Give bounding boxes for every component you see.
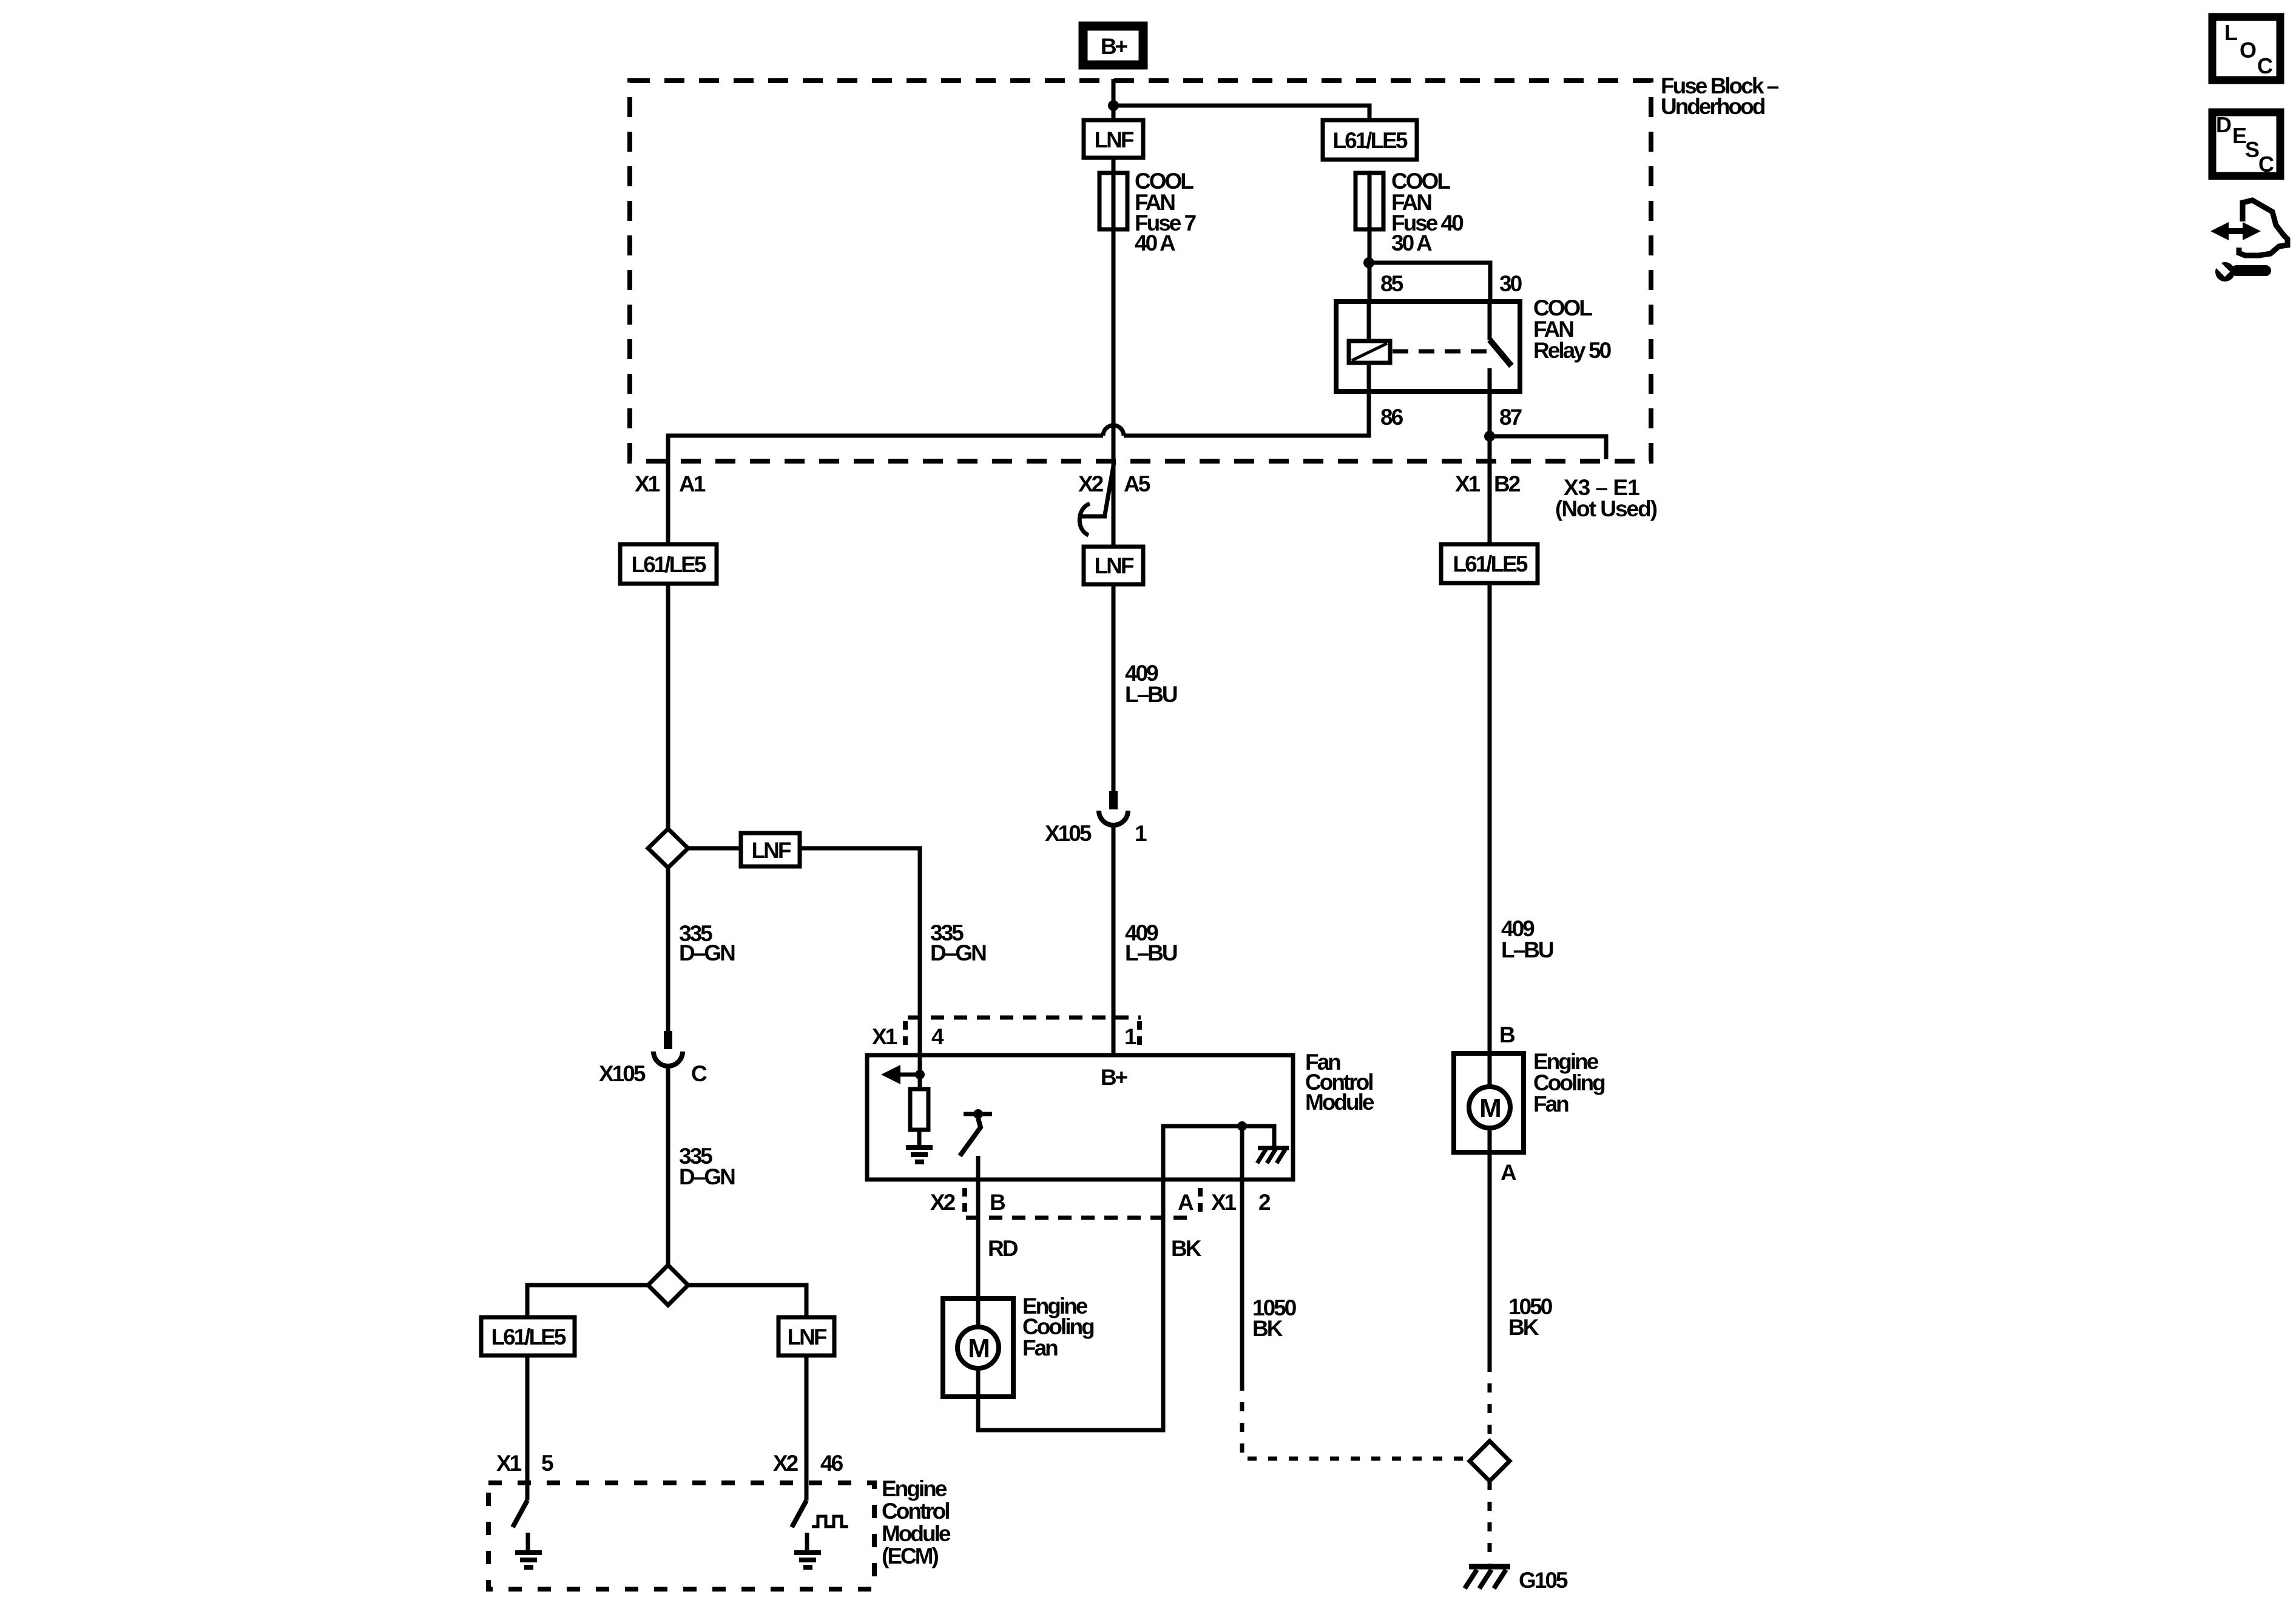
svg-text:L61/LE5: L61/LE5 xyxy=(1333,128,1408,153)
wire 1050 BK dashed to splice S3 xyxy=(1488,1363,1492,1441)
relay actuation dashed link xyxy=(1393,349,1488,354)
svg-text:Relay 50: Relay 50 xyxy=(1533,338,1612,363)
svg-text:Engine: Engine xyxy=(882,1476,947,1501)
connector terminal symbol at X2 A5 xyxy=(1079,462,1114,535)
relay switch pin87 stub xyxy=(1488,368,1492,391)
svg-text:L–BU: L–BU xyxy=(1501,937,1553,962)
module internal switch xyxy=(964,1112,992,1116)
svg-text:B: B xyxy=(990,1190,1005,1215)
ECM internal switch right with PWM xyxy=(792,1501,848,1570)
svg-text:BK: BK xyxy=(1508,1315,1539,1340)
wire splice S1 right to LNF tag xyxy=(688,846,741,851)
svg-text:LNF: LNF xyxy=(1095,127,1134,152)
splice S1 xyxy=(648,829,688,868)
svg-text:40 A: 40 A xyxy=(1135,231,1175,255)
svg-text:LNF: LNF xyxy=(788,1325,827,1349)
relay COOL FAN Relay 50 xyxy=(1336,271,1612,430)
svg-text:X2: X2 xyxy=(1078,471,1104,496)
svg-text:C: C xyxy=(2258,152,2274,177)
module internal resistor xyxy=(910,1089,928,1130)
wire fuse40 to relay node xyxy=(1368,229,1372,302)
fuse F7 COOL FAN Fuse 7 40A xyxy=(1099,169,1196,255)
svg-text:X105: X105 xyxy=(1045,821,1092,846)
wire relay coil pass (pin85-86) xyxy=(1367,302,1371,391)
svg-text:G105: G105 xyxy=(1519,1568,1568,1593)
junction node fuse40/relay xyxy=(1363,257,1374,268)
option tag LNF (bottom) xyxy=(778,1317,834,1355)
DESC reference box xyxy=(2212,112,2280,177)
wire fan A down (1050 BK solid part) xyxy=(1488,1152,1492,1363)
svg-text:B: B xyxy=(1499,1022,1515,1047)
svg-text:LNF: LNF xyxy=(752,838,791,863)
svg-text:(ECM): (ECM) xyxy=(882,1544,939,1568)
wire 1050 BK from module pin X1-2 solid xyxy=(1240,1180,1244,1382)
option tag LNF (center) xyxy=(1084,547,1143,584)
svg-text:1: 1 xyxy=(1124,1024,1136,1049)
wire ECM pin X1-5 xyxy=(525,1355,530,1501)
svg-text:86: 86 xyxy=(1380,405,1403,430)
wire splice S3 to G105 dashed xyxy=(1488,1481,1492,1564)
svg-text:A: A xyxy=(1178,1190,1194,1215)
svg-text:D–GN: D–GN xyxy=(679,940,735,965)
ground G105 xyxy=(1465,1567,1568,1593)
LOC reference box xyxy=(2212,17,2280,80)
inline connector X105 pin 1 xyxy=(1045,791,1147,846)
junction node at B+ xyxy=(1108,100,1119,111)
svg-text:Fan: Fan xyxy=(1022,1335,1058,1360)
power symbol B+ xyxy=(1083,26,1143,65)
svg-text:X1: X1 xyxy=(872,1024,897,1049)
wire ECM pin X2-46 xyxy=(805,1355,809,1501)
engine cooling fan motor (right) xyxy=(1454,1049,1605,1152)
svg-text:M: M xyxy=(968,1334,988,1363)
svg-text:BK: BK xyxy=(1252,1316,1283,1341)
module internal chassis ground xyxy=(1257,1148,1289,1163)
svg-text:S: S xyxy=(2245,137,2259,162)
wire splice S1 down to X105 C xyxy=(666,868,670,1031)
option tag L61/LE5 (right) xyxy=(1441,544,1538,583)
svg-text:2: 2 xyxy=(1258,1190,1271,1215)
wire node to relay pin 30 xyxy=(1369,263,1490,302)
svg-text:LNF: LNF xyxy=(1095,553,1134,578)
module internal ground xyxy=(906,1145,933,1164)
svg-text:M: M xyxy=(1479,1093,1500,1123)
relay coil xyxy=(1349,341,1390,363)
svg-text:46: 46 xyxy=(820,1451,843,1476)
junction node pin87/X3-E1 xyxy=(1484,431,1495,442)
option tag L61/LE5 (bottom left) xyxy=(481,1317,575,1355)
svg-text:RD: RD xyxy=(988,1236,1018,1261)
svg-text:D: D xyxy=(2216,112,2231,137)
svg-text:B2: B2 xyxy=(1494,471,1521,496)
svg-text:D–GN: D–GN xyxy=(930,940,986,965)
svg-text:1: 1 xyxy=(1135,821,1147,846)
svg-text:30: 30 xyxy=(1499,271,1522,296)
svg-text:L61/LE5: L61/LE5 xyxy=(632,552,706,577)
svg-text:A: A xyxy=(1501,1160,1516,1185)
wire LNF tag to module pin X1-4 xyxy=(800,848,920,1053)
svg-text:BK: BK xyxy=(1171,1236,1202,1261)
relay switch pin30 stub xyxy=(1488,302,1492,340)
svg-text:(Not Used): (Not Used) xyxy=(1555,496,1657,521)
svg-text:Module: Module xyxy=(882,1521,951,1546)
svg-text:L: L xyxy=(2224,20,2237,45)
engine cooling fan motor (center) xyxy=(943,1294,1094,1397)
wire right branch to engine cooling fan B xyxy=(1488,583,1492,1053)
module internal ground net wire xyxy=(1163,1126,1274,1180)
wire left branch L61/LE5 to splice S1 xyxy=(666,584,670,829)
harness tag LNF (mid) xyxy=(741,833,800,866)
wire fan motor return loop to module pin A xyxy=(978,1180,1163,1430)
wire relay pin87 down to right L61/LE5 xyxy=(1488,391,1492,544)
svg-text:Control: Control xyxy=(882,1499,949,1524)
wire relay pin86 horizontal to X1 A1 with hop over x=1835 xyxy=(1124,391,1369,436)
svg-text:X1: X1 xyxy=(635,471,660,496)
svg-text:L–BU: L–BU xyxy=(1125,940,1177,965)
module connector bracket top xyxy=(908,1016,1141,1020)
svg-text:C: C xyxy=(691,1061,707,1086)
svg-text:E: E xyxy=(2232,123,2246,148)
svg-text:X1: X1 xyxy=(1455,471,1481,496)
svg-text:X105: X105 xyxy=(599,1061,646,1086)
svg-text:C: C xyxy=(2257,53,2273,78)
svg-text:B+: B+ xyxy=(1101,1065,1128,1090)
ECM internal switch left xyxy=(513,1501,542,1570)
wire branch to L61/LE5 fuse xyxy=(1113,106,1369,120)
svg-text:B+: B+ xyxy=(1101,34,1128,59)
svg-text:X1: X1 xyxy=(1211,1190,1237,1215)
svg-text:Module: Module xyxy=(1305,1090,1374,1115)
wire X105 C to splice S2 xyxy=(666,1068,670,1265)
module internal arrow xyxy=(900,1073,920,1077)
wire module pin X2-B to fan motor xyxy=(976,1156,981,1327)
svg-text:5: 5 xyxy=(541,1451,553,1476)
wire X3-E1 stub (not used) xyxy=(1490,436,1606,459)
svg-text:L61/LE5: L61/LE5 xyxy=(491,1325,566,1349)
svg-text:A5: A5 xyxy=(1124,471,1150,496)
splice S2 xyxy=(648,1265,688,1305)
module connector bracket bottom xyxy=(966,1216,1195,1220)
ECM dashed boundary xyxy=(488,1483,874,1589)
inline connector X105 pin C xyxy=(599,1031,707,1086)
svg-text:D–GN: D–GN xyxy=(679,1164,735,1189)
fuse F40 COOL FAN Fuse 40 30A xyxy=(1356,169,1464,255)
wire 1050 BK dashed corner to splice S3 xyxy=(1242,1382,1468,1459)
svg-text:87: 87 xyxy=(1499,405,1522,430)
splice S3 xyxy=(1470,1441,1510,1481)
option tag L61/LE5 (left) xyxy=(620,544,717,584)
svg-text:X1: X1 xyxy=(496,1451,522,1476)
svg-text:A1: A1 xyxy=(679,471,706,496)
svg-text:X2: X2 xyxy=(773,1451,799,1476)
fuse tag LNF xyxy=(1084,120,1143,158)
svg-text:30 A: 30 A xyxy=(1391,231,1432,255)
service/repair icon xyxy=(2210,200,2288,282)
svg-text:Underhood: Underhood xyxy=(1661,94,1765,119)
svg-text:L61/LE5: L61/LE5 xyxy=(1453,552,1528,576)
svg-text:85: 85 xyxy=(1380,271,1403,296)
wire splice S2 right branch to LNF xyxy=(688,1285,806,1317)
svg-text:X2: X2 xyxy=(930,1190,956,1215)
svg-text:L–BU: L–BU xyxy=(1125,682,1177,707)
wire splice S2 left branch to L61/LE5 xyxy=(527,1285,648,1317)
svg-text:Fan: Fan xyxy=(1533,1092,1568,1116)
wire LNF fuse 7 drop (x=1835) down to module pin 1 xyxy=(1112,158,1116,791)
wire B+ feed vertical xyxy=(1112,79,1116,120)
relay switch blade xyxy=(1490,340,1511,366)
fan control module box xyxy=(867,1018,1374,1218)
fuse block underhood dashed boundary xyxy=(630,81,1651,461)
fuse tag L61/LE5 xyxy=(1323,120,1417,160)
svg-text:O: O xyxy=(2240,38,2256,62)
